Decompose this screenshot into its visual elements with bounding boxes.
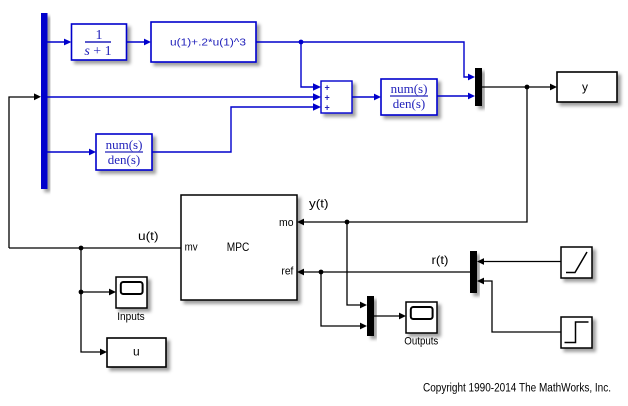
saturation block bbox=[561, 247, 592, 278]
wire: MPC mv output, feedback to demux and branches bbox=[9, 247, 181, 249]
arrowhead at y outport bbox=[550, 84, 557, 91]
arrowhead at outputs mux input 1 bbox=[360, 302, 367, 309]
arrowhead at sum input 2 bbox=[313, 93, 321, 101]
svg-text:y(t): y(t) bbox=[309, 197, 329, 211]
svg-text:Inputs: Inputs bbox=[117, 311, 145, 323]
arrowhead at reference mux input 2 bbox=[477, 278, 484, 285]
svg-text:Outputs: Outputs bbox=[404, 336, 438, 348]
wire: outputs mux to Outputs scope bbox=[374, 315, 400, 317]
junction on mo wire bbox=[345, 220, 350, 225]
svg-text:+: + bbox=[325, 93, 330, 103]
svg-text:r(t): r(t) bbox=[432, 253, 449, 267]
arrowhead at lower transfer fcn input bbox=[89, 149, 96, 156]
wire: ref mux output to MPC ref input bbox=[302, 271, 470, 273]
junction on Fcn output wire bbox=[299, 40, 304, 45]
svg-text:y: y bbox=[582, 80, 588, 94]
arrowhead at u outport bbox=[100, 349, 107, 356]
svg-text:den(s): den(s) bbox=[393, 96, 426, 111]
svg-text:u: u bbox=[133, 345, 140, 359]
arrowhead at reference mux input 1 bbox=[477, 258, 484, 265]
scope block Outputs bbox=[406, 302, 437, 333]
svg-text:num(s): num(s) bbox=[391, 81, 428, 96]
svg-text:u(1)+.2*u(1)^3: u(1)+.2*u(1)^3 bbox=[170, 37, 246, 49]
arrowhead at Fcn input bbox=[144, 39, 151, 46]
wire: demux out1 to transfer fcn bbox=[48, 41, 66, 43]
wire: feedback into demux bbox=[9, 97, 35, 248]
scope block Inputs bbox=[116, 277, 147, 308]
arrowhead at MPC mo input bbox=[297, 219, 304, 226]
arrowhead at MPC ref input bbox=[297, 269, 304, 276]
svg-text:+: + bbox=[325, 83, 330, 93]
reference mux (black bar) bbox=[470, 251, 477, 293]
MPC controller block bbox=[181, 195, 297, 300]
wire: y junction down to MPC mo input bbox=[302, 87, 527, 222]
svg-text:mo: mo bbox=[279, 217, 294, 229]
svg-text:Copyright 1990-2014 The MathWo: Copyright 1990-2014 The MathWorks, Inc. bbox=[423, 383, 611, 395]
demux (blue bar) bbox=[41, 13, 48, 189]
svg-text:s + 1: s + 1 bbox=[84, 44, 111, 59]
wire: transfer fcn to Fcn block bbox=[127, 41, 146, 43]
lower transfer fcn block num(s)/den(s) bbox=[96, 134, 152, 170]
arrowhead into demux bbox=[34, 93, 41, 100]
arrowhead at mux input 2 bbox=[468, 93, 475, 100]
outputs mux (black bar) bbox=[367, 296, 374, 336]
wire: mo junction down to outputs mux input 1 bbox=[347, 222, 361, 305]
mux (black bar, outputs y) bbox=[475, 68, 482, 106]
svg-text:mv: mv bbox=[185, 242, 198, 254]
outport block u bbox=[107, 338, 166, 367]
wire: upper transfer fcn output to mux input 2 bbox=[437, 95, 469, 97]
wire: mv junction down to Inputs scope and u outport bbox=[81, 248, 101, 352]
wire: mux output to y outport bbox=[482, 86, 551, 88]
outport block y bbox=[557, 72, 617, 102]
wire: demux out2 to sum input 2 bbox=[48, 96, 316, 98]
upper transfer fcn block num(s)/den(s) bbox=[381, 79, 437, 115]
wire: saturation output to reference mux input 1 bbox=[483, 261, 561, 263]
saturation icon bbox=[566, 252, 587, 273]
step block bbox=[561, 317, 592, 348]
sum block bbox=[321, 81, 352, 113]
svg-text:1: 1 bbox=[96, 28, 103, 43]
transfer function block 1/(s+1) bbox=[72, 24, 127, 60]
arrowhead at sum input 3 bbox=[313, 103, 321, 111]
wire: branch to Inputs scope bbox=[81, 291, 110, 293]
wire: sum output to upper transfer fcn bbox=[352, 96, 375, 98]
junction at Inputs branch bbox=[79, 290, 84, 295]
arrowhead at outputs mux input 2 bbox=[360, 323, 367, 330]
arrowhead at Outputs scope bbox=[399, 313, 406, 320]
svg-text:u(t): u(t) bbox=[138, 229, 159, 243]
svg-text:num(s): num(s) bbox=[106, 137, 143, 152]
arrowhead at Inputs scope bbox=[109, 289, 116, 296]
junction on ref wire bbox=[319, 270, 324, 275]
wire: ref junction down to outputs mux input 2 bbox=[321, 272, 361, 326]
arrowhead at upper transfer fcn input bbox=[374, 94, 381, 101]
svg-text:MPC: MPC bbox=[227, 240, 250, 254]
arrowhead at transfer fcn input bbox=[64, 39, 72, 46]
svg-text:den(s): den(s) bbox=[108, 152, 141, 167]
junction on mv wire bbox=[79, 246, 84, 251]
svg-text:+: + bbox=[325, 103, 330, 113]
arrowhead at sum input 1 bbox=[313, 83, 321, 91]
wire: junction down to sum input 1 bbox=[301, 42, 315, 87]
svg-text:ref: ref bbox=[281, 266, 294, 278]
wire: step output to reference mux input 2 bbox=[484, 281, 561, 332]
step icon bbox=[565, 322, 589, 343]
junction on y wire bbox=[525, 85, 530, 90]
wire: demux out3 to lower transfer fcn bbox=[48, 151, 91, 153]
Fcn block u(1)+.2*u(1)^3 bbox=[151, 22, 256, 62]
wire: lower transfer fcn output up to sum input 3 bbox=[152, 107, 315, 152]
arrowhead at mux input 1 bbox=[468, 74, 475, 81]
wire: Fcn output across the top, down to mux input 1 bbox=[256, 42, 469, 77]
